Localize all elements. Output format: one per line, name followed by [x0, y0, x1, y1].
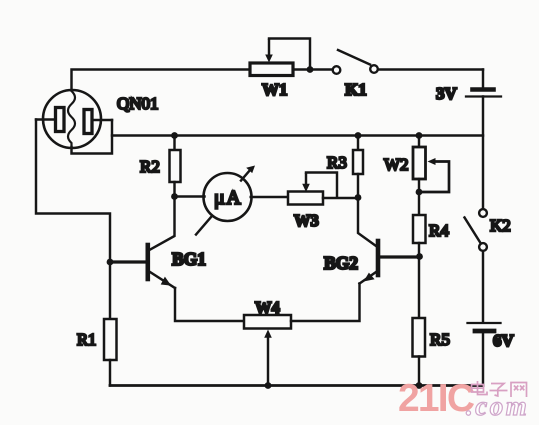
wire W2 top: [418, 136, 420, 148]
node W2 wiper junction: [416, 189, 423, 196]
resistor R5: [413, 318, 426, 357]
wire junction to meter: [175, 195, 205, 197]
wire R3 top: [357, 136, 359, 151]
wire meter to W3: [251, 196, 288, 198]
wire R5 bottom: [418, 357, 420, 386]
svg-text:R2: R2: [140, 157, 160, 176]
resistor R3: [353, 150, 363, 174]
potentiometer W3: [288, 173, 337, 205]
svg-text:μA: μA: [214, 187, 242, 209]
node BG2 base junction: [416, 253, 423, 260]
transistor BG2: [358, 198, 420, 284]
svg-text:W3: W3: [294, 211, 319, 230]
svg-text:K2: K2: [490, 216, 511, 235]
svg-text:W2: W2: [384, 155, 409, 174]
wire R4 bottom to R5: [418, 243, 420, 318]
node BG1 base junction: [107, 259, 114, 266]
svg-text:R4: R4: [429, 221, 449, 240]
node W4 wiper bottom junction: [265, 382, 272, 389]
node W3/R3/collector junction: [355, 194, 362, 201]
svg-text:BG2: BG2: [324, 253, 358, 273]
svg-text:3V: 3V: [436, 84, 458, 103]
wire R2 top: [173, 136, 175, 151]
switch K1: [333, 50, 378, 74]
wire sensor bottom to mid rail: [72, 120, 113, 154]
battery 3V: [466, 70, 501, 210]
meter U1 microammeter: [196, 166, 255, 235]
wire W4 right to BG2 emitter: [291, 284, 360, 322]
node W1 wiper junction: [307, 66, 314, 73]
wire bottom rail: [110, 384, 483, 387]
resistor R2: [170, 150, 181, 182]
node R3 mid-rail junction: [355, 132, 362, 139]
wire W3 to R3 bottom junction: [323, 197, 358, 199]
resistor R1: [104, 319, 117, 360]
svg-text:K1: K1: [345, 80, 367, 99]
wire sensor left electrode to BG1 base column: [36, 120, 110, 320]
battery 6V: [468, 251, 501, 386]
node W2 mid-rail junction: [416, 132, 423, 139]
watermark 21IC.COM: [398, 377, 529, 421]
svg-text:R5: R5: [430, 330, 450, 349]
svg-text:BG1: BG1: [172, 249, 206, 269]
wire top rail: [72, 70, 484, 91]
svg-text:R3: R3: [327, 153, 347, 172]
svg-text:W4: W4: [255, 298, 280, 317]
node R2 top junction: [171, 132, 178, 139]
node meter left junction: [171, 193, 178, 200]
resistor R4: [413, 215, 426, 243]
gas sensor QN01: [36, 90, 112, 148]
wire R2 bottom: [173, 182, 175, 197]
wire R3 bottom: [357, 174, 359, 198]
potentiometer W4: [244, 315, 291, 383]
switch K2: [465, 209, 487, 251]
potentiometer W1: [250, 39, 310, 76]
svg-text:R1: R1: [77, 330, 96, 349]
svg-text:6V: 6V: [493, 331, 515, 350]
wire W2 bottom: [418, 179, 420, 215]
node R5 bottom junction: [416, 382, 423, 389]
svg-text:QN01: QN01: [117, 94, 159, 113]
transistor BG1: [110, 197, 175, 289]
svg-text:21IC: 21IC: [398, 377, 475, 420]
wire middle rail: [112, 134, 483, 136]
svg-text:.com: .com: [466, 391, 529, 421]
wire BG1 emitter down: [175, 288, 244, 321]
wire R1 bottom: [109, 360, 111, 386]
svg-text:W1: W1: [262, 80, 288, 99]
potentiometer W2: [413, 147, 449, 192]
